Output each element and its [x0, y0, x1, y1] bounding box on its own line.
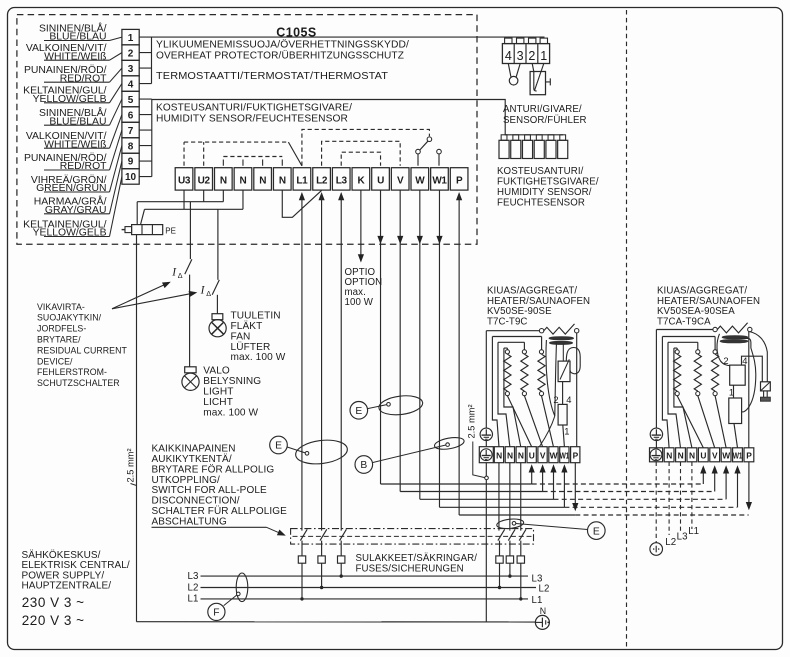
svg-text:2: 2 — [723, 355, 728, 366]
label heater KV50SE-90SE — [487, 286, 590, 328]
svg-text:P: P — [573, 451, 579, 461]
heater 1 heating element resistors — [504, 350, 511, 396]
heater 1 earth conductor with PE symbol — [480, 331, 492, 622]
svg-text:P: P — [746, 451, 752, 461]
heater feed wire V (down arrow, bus to heaters) — [397, 190, 714, 491]
heater 2 dashed earth to supply — [655, 462, 657, 543]
terminal box 2 — [122, 45, 139, 60]
wire switch 2 to fan — [216, 295, 218, 314]
svg-text:7: 7 — [128, 126, 134, 137]
svg-text:BELYSNING: BELYSNING — [203, 376, 261, 387]
wire P pilot return (arrow up into strip) — [456, 192, 462, 515]
svg-text:YLIKUUMENEMISSUOJA/ÖVERHETTNIN: YLIKUUMENEMISSUOJA/ÖVERHETTNINGSSKYDD/ — [156, 40, 409, 51]
svg-text:L3: L3 — [188, 571, 199, 582]
svg-text:2: 2 — [553, 394, 558, 405]
label fan — [231, 310, 286, 363]
label sensor — [503, 104, 587, 126]
heater 1 limiter box pins 2 4 1 — [553, 394, 571, 437]
label 2.5 mm2 left — [126, 448, 137, 485]
switch pole 2 — [320, 529, 327, 540]
wire colour label 4: KELTAINEN/GUL/YELLOW/GELB — [23, 84, 122, 105]
wire colour label 5: SININEN/BLÅ/BLUE/BLAU — [39, 99, 122, 127]
heater 2 top element feed — [656, 329, 715, 331]
svg-text:N: N — [666, 451, 672, 461]
svg-text:2: 2 — [128, 48, 134, 59]
svg-text:1: 1 — [128, 33, 134, 44]
terminal box 5 — [122, 91, 139, 106]
heater 2 element top feeds — [662, 337, 715, 350]
heater 1 top element feed — [486, 330, 541, 332]
svg-text:T7CA-T9CA: T7CA-T9CA — [657, 316, 711, 327]
svg-text:FEHLERSTROM-: FEHLERSTROM- — [37, 367, 107, 377]
svg-text:HAUPTZENTRALE/: HAUPTZENTRALE/ — [22, 581, 112, 592]
svg-text:K: K — [357, 176, 365, 187]
svg-text:L2: L2 — [316, 176, 328, 187]
svg-text:W: W — [415, 176, 425, 187]
heater feed wire W (down arrow, bus to heaters) — [417, 190, 726, 499]
main terminal strip U3..P — [175, 168, 468, 190]
svg-text:U3: U3 — [178, 176, 191, 187]
heater 2 thermal fuse — [761, 382, 771, 401]
svg-text:N: N — [518, 451, 524, 461]
cable marker E for U V W bundle — [350, 393, 424, 419]
svg-text:DISCONNECTION/: DISCONNECTION/ — [152, 496, 240, 507]
wire element to P terminal — [576, 333, 578, 447]
svg-text:LÜFTER: LÜFTER — [231, 341, 271, 353]
svg-text:W: W — [722, 451, 730, 461]
terminal box 6 — [122, 107, 139, 122]
wire from terminals 5-10 to humidity sensor — [152, 100, 563, 135]
phase wire L1 from supply (arrow up into strip) — [299, 192, 305, 531]
svg-text:1: 1 — [564, 426, 569, 437]
svg-text:SCHALTER FÜR ALLPOLIGE: SCHALTER FÜR ALLPOLIGE — [152, 505, 288, 517]
overheat protector symbol — [530, 64, 550, 95]
svg-text:V: V — [712, 451, 718, 461]
svg-text:KOSTEUSANTURI/FUKTIGHETSGIVARE: KOSTEUSANTURI/FUKTIGHETSGIVARE/ — [156, 103, 352, 114]
label heater KV50SEA-90SEA — [657, 286, 760, 328]
light symbol — [182, 367, 199, 391]
wire K optional output with arrow — [358, 190, 364, 262]
svg-text:FUSES/SICHERUNGEN: FUSES/SICHERUNGEN — [356, 564, 464, 575]
svg-text:JORDFELS-: JORDFELS- — [37, 324, 86, 334]
svg-text:2.5 mm²: 2.5 mm² — [467, 404, 477, 438]
svg-text:N: N — [507, 451, 513, 461]
wire to PE block — [136, 202, 138, 225]
heater 2 earth symbol at supply — [650, 543, 663, 556]
svg-text:2: 2 — [528, 49, 535, 63]
svg-text:BRYTARE/: BRYTARE/ — [37, 335, 81, 345]
neutral terminal N — [535, 606, 549, 630]
svg-text:RESIDUAL CURRENT: RESIDUAL CURRENT — [37, 345, 127, 355]
wire thermostat to W1 heater 2 — [734, 424, 738, 448]
svg-text:DEVICE/: DEVICE/ — [37, 356, 73, 366]
svg-text:L1: L1 — [188, 594, 199, 605]
heater 1 element wires to N terminals — [492, 337, 499, 447]
terminal box 4 — [122, 76, 139, 91]
wire switch to fuse to supply line — [340, 541, 343, 578]
svg-text:2.5 mm²: 2.5 mm² — [126, 448, 136, 482]
svg-text:L2: L2 — [539, 584, 550, 595]
svg-text:4: 4 — [566, 394, 571, 405]
fuse 5 — [506, 556, 513, 563]
svg-text:FUKTIGHETSGIVARE/: FUKTIGHETSGIVARE/ — [497, 177, 599, 188]
svg-text:AUKIKYTKENTÄ/: AUKIKYTKENTÄ/ — [152, 453, 232, 465]
svg-text:KAIKKINAPAINEN: KAIKKINAPAINEN — [152, 444, 236, 455]
heater 2 earth conductor with PE symbol — [650, 330, 662, 448]
svg-text:N: N — [259, 176, 266, 187]
wire colour label 8: VIHREÄ/GRÖN/GREEN/GRÜN — [31, 146, 122, 195]
svg-text:L3: L3 — [336, 176, 348, 187]
dashed enclosure of control unit C105S — [17, 15, 477, 245]
svg-text:N: N — [496, 451, 502, 461]
svg-text:P: P — [456, 176, 463, 187]
switch pole 1 — [300, 529, 307, 540]
svg-text:U2: U2 — [198, 176, 211, 187]
svg-text:230 V 3 ~: 230 V 3 ~ — [22, 595, 85, 610]
heater 1 thermostat box — [558, 359, 570, 381]
terminal box 9 — [122, 153, 139, 168]
svg-text:TERMOSTAATTI/TERMOSTAT/THERMOS: TERMOSTAATTI/TERMOSTAT/THERMOSTAT — [156, 71, 388, 82]
all-pole switch dash-dot enclosure — [291, 529, 534, 545]
svg-text:max. 100 W: max. 100 W — [203, 407, 258, 418]
heater 2 element wires to N terminals — [662, 337, 669, 448]
svg-text:U: U — [529, 451, 535, 461]
svg-text:3: 3 — [128, 64, 134, 75]
fuse 2 — [318, 556, 325, 563]
svg-text:1: 1 — [540, 49, 547, 63]
cable marker B for W1 P bundle — [355, 436, 465, 474]
label humidity sensor — [156, 103, 352, 125]
svg-text:SCHUTZSCHALTER: SCHUTZSCHALTER — [37, 378, 120, 388]
svg-text:HUMIDITY SENSOR/FEUCHTESENSOR: HUMIDITY SENSOR/FEUCHTESENSOR — [156, 114, 348, 125]
cable marker F for supply bundle — [208, 573, 248, 621]
svg-text:L1: L1 — [296, 176, 308, 187]
heater 2 N wires dashed with phase labels — [665, 462, 699, 548]
svg-text:3: 3 — [517, 49, 524, 63]
svg-text:FAN: FAN — [231, 331, 251, 342]
terminal box 10 — [122, 169, 139, 184]
label light — [203, 366, 261, 419]
cable marker E heater 1 N bundle — [496, 518, 605, 540]
heater 2 capillary loop — [740, 338, 756, 412]
residual current switch 2 I-delta — [200, 280, 220, 298]
svg-text:V: V — [540, 451, 546, 461]
svg-text:LICHT: LICHT — [203, 397, 233, 408]
heater 2 terminal strip — [650, 448, 754, 462]
temperature sensor terminal block 4-3-2-1 — [502, 38, 549, 63]
svg-text:U: U — [700, 451, 706, 461]
svg-text:SULAKKEET/SÄKRINGAR/: SULAKKEET/SÄKRINGAR/ — [356, 553, 478, 564]
fuse 1 — [298, 556, 305, 563]
heater 1 pilot wire P with down arrow — [572, 463, 578, 512]
label overheat protector — [156, 40, 409, 62]
heater 1 terminal strip — [479, 447, 580, 463]
vertical dashed separator line — [626, 10, 628, 649]
label option max 100W — [345, 267, 383, 308]
heater 2 coil to thermal fuse curve — [750, 332, 768, 382]
cable marker E for L1 L2 L3 bundle — [270, 436, 349, 466]
wire switch 1 to light — [189, 275, 191, 367]
svg-text:F: F — [213, 608, 219, 619]
fuse 6 — [517, 556, 524, 563]
svg-text:Δ: Δ — [178, 271, 183, 280]
wire colour label 10: KELTAINEN/GUL/YELLOW/GELB — [23, 176, 122, 238]
heater 2 feed arrows from buses — [700, 465, 706, 484]
heater 1 element bottoms to U V W — [507, 396, 553, 447]
pilot bus P to heaters — [459, 514, 748, 516]
svg-text:max. 100 W: max. 100 W — [231, 352, 286, 363]
supply line L1 — [188, 594, 543, 606]
heater 1 element coil arcs — [549, 337, 573, 345]
heater 2 tubular element — [713, 323, 752, 333]
svg-text:W: W — [550, 451, 558, 461]
svg-text:VIKAVIRTA-: VIKAVIRTA- — [37, 302, 85, 312]
svg-text:OVERHEAT PROTECTOR/ÜBERHITZUNG: OVERHEAT PROTECTOR/ÜBERHITZUNGSSCHUTZ — [156, 51, 404, 62]
heater 2 element bottoms to U V W — [677, 396, 726, 448]
svg-text:V: V — [397, 176, 404, 187]
svg-text:220 V 3 ~: 220 V 3 ~ — [22, 613, 85, 628]
heater 1 feed arrows from buses — [529, 464, 535, 484]
wire U2 and N to PE bundle — [137, 190, 223, 202]
fan symbol — [209, 314, 226, 337]
svg-text:BRYTARE FÖR ALLPOLIG: BRYTARE FÖR ALLPOLIG — [152, 463, 275, 475]
fuse 4 — [496, 556, 503, 563]
switch pole 5 — [508, 529, 515, 540]
wire switch to fuse to supply line — [508, 541, 511, 578]
wire element to P terminal heater 2 — [748, 332, 750, 448]
wire coil to thermostat — [562, 344, 564, 361]
phase wire L2 from supply (arrow up into strip) — [319, 192, 325, 531]
fuse 3 — [338, 556, 345, 563]
supply line L3 — [188, 571, 543, 585]
svg-text:N: N — [540, 606, 546, 616]
svg-text:E: E — [275, 441, 282, 452]
svg-text:Δ: Δ — [206, 289, 211, 298]
wire colour label 7: PUNAINEN/RÖD/RED/ROT — [24, 130, 122, 172]
wire contactor to thermostat — [733, 385, 735, 398]
svg-text:W1: W1 — [432, 176, 447, 187]
svg-text:E: E — [593, 526, 600, 537]
wire colour label 9: HARMAA/GRÅ/GRAY/GRAU — [34, 161, 122, 216]
switch above W/W1 terminals — [416, 137, 442, 166]
svg-text:FLÄKT: FLÄKT — [231, 320, 263, 332]
switch pole 6 — [519, 529, 526, 540]
terminal box 1 — [122, 29, 139, 44]
svg-text:SWITCH FOR ALL-POLE: SWITCH FOR ALL-POLE — [152, 485, 267, 496]
dashed link U3/U2 to L1 — [184, 142, 204, 166]
svg-text:ABSCHALTUNG: ABSCHALTUNG — [152, 516, 227, 527]
svg-text:L3: L3 — [677, 531, 688, 542]
switch pole 3 — [340, 529, 347, 540]
wire U3 and N to PE bundle — [145, 190, 243, 209]
label all-pole disconnection switch — [152, 444, 288, 536]
svg-text:9: 9 — [128, 157, 134, 168]
svg-text:N: N — [678, 451, 684, 461]
PEN line at bottom — [137, 621, 536, 623]
sensor bulb — [508, 64, 520, 85]
svg-text:L2: L2 — [188, 582, 199, 593]
bracket joining terminals 5-10 (humidity sensor cable) — [139, 99, 152, 177]
humidity sensor block — [499, 135, 568, 159]
svg-text:ANTURI/GIVARE/: ANTURI/GIVARE/ — [503, 104, 582, 115]
wire from switch bundle to residual current switch 1 — [189, 202, 191, 259]
heater 2 heating element resistors — [674, 350, 681, 396]
svg-text:T7C-T9C: T7C-T9C — [487, 316, 528, 327]
svg-text:N: N — [240, 176, 247, 187]
svg-text:SÄHKÖKESKUS/: SÄHKÖKESKUS/ — [22, 549, 101, 561]
heater 2 pilot wire P with down arrow — [746, 462, 752, 511]
switch pole 4 — [498, 529, 505, 540]
wire colour label 1: SININEN/BLÅ/BLUE/BLAU — [39, 21, 122, 42]
dashed link L1 to switch W/W1 — [302, 129, 429, 165]
pointer arrows to residual current switches — [112, 282, 197, 309]
heater 1 element top feeds — [492, 337, 541, 350]
label fuses — [356, 553, 478, 574]
wire from switch bundle to residual current switch 2 — [217, 209, 219, 279]
PE conductor down the left side — [136, 235, 138, 622]
label 2.5 mm2 right — [467, 404, 489, 479]
wire from terminal 1 to temperature sensor — [139, 36, 544, 38]
svg-text:U: U — [377, 176, 384, 187]
svg-text:L1: L1 — [532, 595, 543, 606]
label humidity sensor block — [497, 166, 599, 209]
svg-text:B: B — [360, 460, 367, 471]
wire colour label 2: VALKOINEN/VIT/WHITE/WEIß — [26, 43, 122, 62]
wire switch to fuse to supply line — [498, 541, 501, 590]
svg-text:E: E — [355, 406, 362, 417]
dashed neutral link over N terminals — [223, 156, 282, 158]
svg-text:W1: W1 — [560, 451, 570, 461]
svg-text:W1: W1 — [733, 451, 743, 461]
heater feed wire U (down arrow, bus to heaters) — [377, 190, 703, 484]
svg-text:HUMIDITY SENSOR/: HUMIDITY SENSOR/ — [497, 187, 592, 198]
switch coupling dashed line — [293, 535, 532, 537]
svg-text:FEUCHTESENSOR: FEUCHTESENSOR — [497, 198, 585, 209]
wire thermostat to limiter — [562, 382, 564, 405]
terminal box 7 — [122, 122, 139, 137]
heater 1 capillary coil loop — [566, 348, 580, 374]
heater 1 tubular element — [539, 324, 579, 334]
heater feed wire W1 (down arrow, bus to heaters) — [436, 190, 737, 507]
svg-text:VALO: VALO — [203, 366, 230, 377]
svg-text:6: 6 — [128, 110, 134, 121]
wire N4 to L2 jumper — [282, 190, 321, 217]
svg-text:SENSOR/FÜHLER: SENSOR/FÜHLER — [503, 115, 587, 126]
supply line L2 — [188, 582, 550, 594]
wire colour label 6: VALKOINEN/VIT/WHITE/WEIß — [26, 115, 122, 151]
svg-text:L1: L1 — [688, 526, 699, 537]
svg-text:LIGHT: LIGHT — [203, 386, 233, 397]
label power supply — [22, 549, 130, 628]
svg-text:4: 4 — [128, 79, 134, 90]
phase wire L3 from supply (arrow up into strip) — [338, 192, 344, 531]
dashed link L3 to U — [341, 152, 380, 166]
wire to PE block diagonal — [141, 209, 145, 224]
wire limiter to W1 — [563, 425, 565, 447]
wire contactor pin 4 to thermal fuse — [742, 356, 763, 382]
residual current switch 1 I-delta — [171, 259, 192, 280]
PE terminal block — [122, 225, 176, 236]
svg-text:4: 4 — [505, 49, 512, 63]
heater 1 capillary bulb — [540, 340, 557, 447]
wire switch to fuse to supply line — [320, 541, 323, 590]
svg-text:10: 10 — [125, 172, 137, 183]
heater 2 contactor loop — [717, 334, 730, 366]
svg-text:KOSTEUSANTURI/: KOSTEUSANTURI/ — [497, 166, 584, 177]
wire colour label 3: PUNAINEN/RÖD/RED/ROT — [24, 64, 122, 84]
svg-text:SUOJAKYTKIN/: SUOJAKYTKIN/ — [37, 313, 102, 323]
heater 2 element coil arcs — [720, 336, 748, 343]
svg-text:PE: PE — [165, 226, 176, 235]
terminal box 3 — [122, 60, 139, 75]
svg-text:8: 8 — [128, 141, 134, 152]
svg-text:5: 5 — [128, 95, 134, 106]
svg-text:UTKOPPLING/: UTKOPPLING/ — [152, 475, 220, 486]
svg-text:N: N — [689, 451, 695, 461]
svg-text:L2: L2 — [665, 537, 676, 548]
heater 2 thermostat box — [729, 398, 742, 424]
wire switch to fuse to supply line — [300, 541, 303, 601]
svg-text:TUULETIN: TUULETIN — [231, 310, 281, 321]
svg-text:N: N — [279, 176, 286, 187]
terminal box 8 — [122, 138, 139, 153]
svg-text:100 W: 100 W — [345, 297, 374, 308]
bracket joining terminals 2-4 (sensor cable) — [139, 37, 151, 84]
svg-text:N: N — [220, 176, 227, 187]
dashed link L2 to V — [322, 141, 401, 165]
heater 2 contactor box pins 2 4 1 — [723, 355, 747, 397]
label residual current device — [37, 302, 127, 388]
heater 1 N wires down to switchgear — [498, 463, 500, 531]
wire switch to fuse to supply line — [519, 541, 522, 601]
